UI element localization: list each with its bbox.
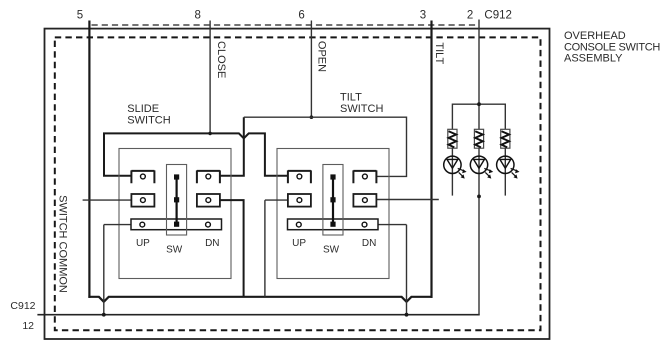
wire path A: slide UP contact to pin8 to tilt UP contact (with hop) bbox=[104, 133, 288, 175]
slide slider dots bbox=[174, 174, 179, 179]
wire pin5 stub to slide common contact bbox=[83, 199, 132, 201]
LED lamp 1 bbox=[444, 156, 467, 179]
node middle lamp string junction bbox=[477, 195, 481, 199]
contact tilt row1 right (open-bottom) bbox=[353, 170, 376, 183]
node tilt bar to pin12 junction bbox=[405, 313, 409, 317]
wire lamp feed bus bbox=[452, 103, 505, 105]
wire tilt row2-right contact to pin3 bbox=[376, 199, 438, 201]
wire pin5 vertical (switch common feed) bbox=[88, 21, 90, 298]
LED lamp 3 bbox=[497, 156, 520, 179]
LED lamp 2 bbox=[470, 156, 493, 179]
svg-text:12: 12 bbox=[22, 320, 34, 332]
wire pin3 vertical bbox=[430, 21, 432, 298]
outer solid box: overhead console switch assembly outline bbox=[45, 29, 550, 339]
svg-text:OPEN: OPEN bbox=[316, 41, 328, 72]
svg-text:3: 3 bbox=[420, 9, 426, 21]
connector C912 dashed line (top) bbox=[92, 24, 480, 26]
svg-text:2: 2 bbox=[467, 9, 473, 21]
node pin6 junction bbox=[310, 115, 314, 119]
wire pin6 vertical bbox=[310, 21, 312, 118]
wire lamp string right lower bbox=[504, 148, 506, 195]
wire lamp string middle lower bbox=[478, 148, 480, 315]
wire switch common bus with hops bbox=[88, 297, 432, 302]
wire slide bar to pin12 bbox=[104, 225, 131, 315]
svg-text:DN: DN bbox=[362, 238, 376, 249]
svg-text:UP: UP bbox=[136, 238, 150, 249]
contact slide row1 right (open-bottom) bbox=[197, 170, 220, 183]
svg-text:TILT: TILT bbox=[340, 92, 362, 104]
contact slide row1 left (open-bottom) bbox=[131, 170, 154, 183]
node slide bar to pin12 junction bbox=[102, 313, 106, 317]
wire lamp string left drop bbox=[451, 104, 453, 130]
svg-text:C912: C912 bbox=[484, 9, 512, 21]
svg-text:ASSEMBLY: ASSEMBLY bbox=[564, 53, 623, 65]
tilt slider contact line bbox=[332, 177, 334, 225]
svg-text:SWITCH: SWITCH bbox=[340, 103, 383, 115]
contact circles slide bbox=[141, 174, 146, 179]
slide switch outer box bbox=[119, 149, 231, 279]
resistor R1 bbox=[448, 129, 457, 148]
wire pin8 vertical bbox=[209, 21, 211, 134]
svg-text:C912: C912 bbox=[10, 300, 35, 312]
svg-text:6: 6 bbox=[298, 9, 304, 21]
svg-text:SWITCH: SWITCH bbox=[127, 114, 170, 126]
wire path B: pin6 to slide DN contact and tilt DN contact bbox=[220, 117, 244, 176]
svg-text:UP: UP bbox=[292, 238, 306, 249]
svg-text:DN: DN bbox=[205, 238, 219, 249]
tilt switch outer box bbox=[277, 149, 389, 279]
contact slide row2 right bbox=[197, 194, 220, 207]
wire tilt bar to pin12 bbox=[378, 225, 407, 315]
svg-text:SWITCH COMMON: SWITCH COMMON bbox=[57, 195, 69, 293]
contact tilt row1 left (open-bottom) bbox=[288, 170, 311, 183]
wire lamp string left lower bbox=[451, 148, 453, 195]
wire slide row2-right contact to bus bbox=[220, 200, 244, 297]
resistor R2 bbox=[474, 129, 483, 148]
wire tilt row2-left contact to bus bbox=[265, 200, 288, 297]
svg-text:CLOSE: CLOSE bbox=[215, 41, 227, 78]
inner dashed box: assembly dashed boundary bbox=[55, 37, 541, 330]
wire pin2 vertical bbox=[478, 20, 480, 130]
svg-text:5: 5 bbox=[77, 9, 83, 21]
wire lamp string right drop bbox=[504, 104, 506, 130]
contact tilt row2 right bbox=[353, 194, 376, 207]
contact tilt row2 left bbox=[288, 194, 311, 207]
slide slider contact line bbox=[176, 177, 178, 225]
svg-text:SLIDE: SLIDE bbox=[127, 103, 159, 115]
resistor R3 bbox=[501, 129, 510, 148]
tilt slider SW box bbox=[323, 165, 343, 236]
node pin2 lamp bus junction bbox=[477, 102, 481, 106]
slide slider SW box bbox=[167, 165, 187, 236]
wire pin12 horizontal bbox=[37, 314, 479, 316]
svg-text:8: 8 bbox=[194, 9, 200, 21]
svg-text:CONSOLE SWITCH: CONSOLE SWITCH bbox=[564, 41, 660, 53]
contact slide bottom bar bbox=[131, 219, 222, 230]
contact tilt bottom bar bbox=[288, 219, 379, 230]
svg-text:SW: SW bbox=[166, 245, 183, 256]
svg-text:TILT: TILT bbox=[433, 42, 445, 64]
contact slide row2 left bbox=[131, 194, 154, 207]
node pin8 junction bbox=[208, 132, 212, 136]
svg-text:SW: SW bbox=[323, 245, 340, 256]
tilt slider dots bbox=[330, 174, 335, 179]
contact circles tilt bbox=[297, 174, 302, 179]
svg-text:OVERHEAD: OVERHEAD bbox=[564, 30, 626, 42]
